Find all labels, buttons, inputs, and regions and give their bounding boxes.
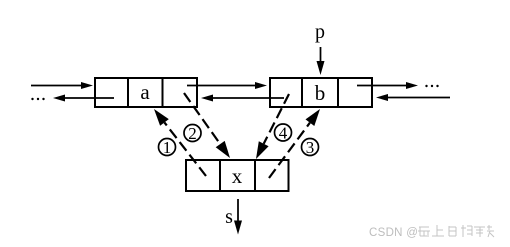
svg-text:2: 2 [188,124,197,143]
wire s pointer down from x [234,199,242,235]
node b box [270,78,372,107]
node circled 3 [302,138,319,157]
svg-text:CSDN @: CSDN @ [369,227,418,239]
node circled 4 [275,124,292,143]
wire b.prev into a [201,95,284,102]
svg-text:b: b [315,81,326,105]
svg-text:3: 3 [306,138,315,157]
wire dashed 2: a.next to x [184,93,230,158]
svg-text:1: 1 [163,138,172,157]
wire a.next into b [187,82,267,89]
svg-text:4: 4 [279,124,288,143]
svg-text:p: p [315,21,325,43]
node circled 1 [159,138,176,157]
wire b.next to right dots [357,82,418,89]
wire dashed 4: b.prev to x [256,94,289,159]
wire incoming next from left into a [31,82,93,89]
svg-text:s: s [225,206,233,228]
watermark CJK glyph strokes [418,225,494,237]
wire p pointer down into b [317,47,325,75]
node left ellipsis [31,98,44,100]
wire incoming prev from right into b [376,94,450,101]
wire dashed 1: x.prev to a [154,109,206,176]
wire dashed 3: x.next to b [269,109,320,178]
node circled 2 [184,124,201,143]
svg-text:a: a [140,80,150,104]
wire a.prev to left dots [53,95,114,102]
node right ellipsis [425,85,438,87]
node a box [95,78,197,107]
node x box [186,160,289,191]
svg-text:x: x [232,164,243,188]
